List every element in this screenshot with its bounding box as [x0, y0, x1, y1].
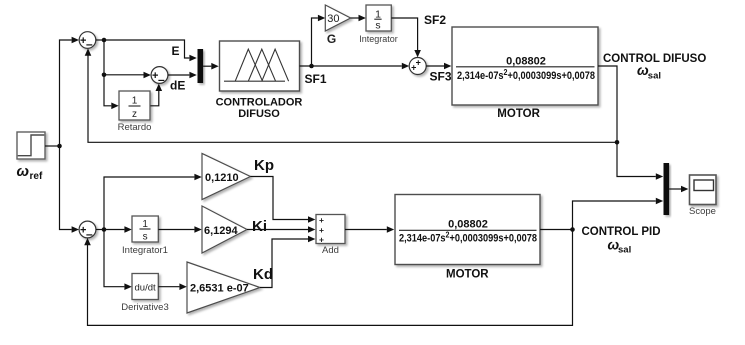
wire motor1 output to mux2 (fuzzy) — [598, 66, 663, 180]
svg-text:+: + — [319, 215, 324, 225]
step source omega_ref — [17, 132, 45, 159]
wire Retardo output up to sum dE — [151, 84, 163, 106]
wire mux2 to scope — [669, 186, 688, 193]
wire controller output SF1 to sum3 — [300, 63, 410, 70]
svg-text:s: s — [375, 20, 380, 32]
svg-text:SF1: SF1 — [305, 72, 327, 86]
wire Kp to Add — [250, 177, 315, 223]
svg-text:+: + — [411, 62, 416, 72]
block Add — [316, 215, 345, 245]
wire sum dE to mux — [168, 72, 197, 79]
svg-text:30: 30 — [327, 13, 339, 25]
gain Kp 0,1210 — [202, 153, 250, 199]
svg-text:MOTOR: MOTOR — [497, 108, 540, 120]
svg-text:sal: sal — [618, 244, 631, 255]
svg-text:2,314e-07s2+0,0003099s+0,0078: 2,314e-07s2+0,0003099s+0,0078 — [457, 67, 595, 82]
svg-text:DIFUSO: DIFUSO — [238, 108, 280, 120]
wire junction up to sum1 — [60, 37, 80, 146]
block Scope — [690, 175, 717, 205]
node D — [570, 227, 575, 232]
wire Integrator1 to Ki — [158, 226, 201, 233]
block MOTOR (fuzzy) transfer fcn — [452, 27, 598, 105]
mux Mux1 — [198, 49, 204, 83]
wire sum4 output to junction C — [96, 229, 104, 231]
svg-text:–: – — [158, 72, 165, 86]
node A — [102, 38, 107, 43]
wire E branch to mux — [104, 40, 197, 61]
label omega_ref — [17, 163, 43, 182]
wire integrator SF2 down to sum3 — [391, 18, 421, 57]
svg-text:CONTROL PID: CONTROL PID — [582, 226, 661, 238]
svg-text:z: z — [132, 109, 137, 120]
gain G value 30 — [325, 5, 350, 31]
sum dE — [151, 67, 168, 87]
wire PID feedback to sum4 — [84, 230, 572, 326]
svg-text:Retardo: Retardo — [118, 122, 152, 133]
label CONTROL DIFUSO — [603, 53, 706, 82]
svg-text:0,08802: 0,08802 — [448, 219, 488, 231]
svg-text:ref: ref — [30, 171, 43, 182]
svg-text:6,1294: 6,1294 — [204, 225, 239, 237]
wire Add to motor2 — [345, 226, 394, 233]
sum Sum4 (PID error) — [79, 221, 96, 241]
svg-text:E: E — [172, 44, 180, 58]
mux Mux2 — [664, 163, 670, 215]
wire SF1 up to gain G — [312, 15, 326, 66]
node SF1 junction — [309, 64, 314, 69]
wire G to integrator — [351, 15, 366, 22]
svg-text:sal: sal — [648, 71, 661, 82]
wire Kd to Add — [260, 236, 315, 288]
wire Ki to Add — [247, 226, 315, 233]
wire D up to mux2 (PID) — [573, 198, 664, 230]
node C — [102, 227, 107, 232]
wire junction down to sum4 (PID) — [60, 146, 80, 233]
svg-text:Kd: Kd — [253, 266, 273, 283]
svg-text:1: 1 — [142, 219, 148, 230]
svg-text:s: s — [143, 232, 148, 243]
svg-text:+: + — [319, 225, 324, 235]
svg-text:Integrator: Integrator — [359, 34, 398, 44]
svg-text:2,314e-07s2+0,0003099s+0,0078: 2,314e-07s2+0,0003099s+0,0078 — [399, 230, 537, 245]
svg-text:Integrator1: Integrator1 — [122, 245, 168, 256]
svg-text:1: 1 — [375, 8, 381, 20]
wire step output to junction — [45, 145, 60, 147]
label CONTROLADOR DIFUSO — [216, 97, 303, 120]
svg-text:SF3: SF3 — [430, 70, 452, 84]
svg-text:Scope: Scope — [689, 206, 716, 217]
wire motor2 output junction D — [540, 229, 573, 231]
svg-text:–: – — [86, 227, 93, 241]
svg-text:Add: Add — [322, 245, 339, 256]
label CONTROL PID — [582, 226, 661, 256]
svg-text:ω: ω — [17, 163, 30, 180]
svg-text:dE: dE — [170, 79, 185, 93]
wire B to sum dE — [104, 72, 151, 79]
node fuzzy feedback junction — [615, 140, 620, 145]
svg-text:Ki: Ki — [252, 218, 267, 235]
svg-text:–: – — [86, 37, 93, 51]
wire A down to junction B — [103, 40, 105, 75]
svg-text:+: + — [319, 235, 324, 245]
wire fuzzy feedback to sum1 — [85, 48, 617, 142]
sum Sum1 (fuzzy error) — [79, 32, 96, 52]
gain Ki 6,1294 — [202, 206, 247, 253]
svg-text:0,1210: 0,1210 — [205, 172, 239, 184]
node step-output junction — [57, 144, 62, 149]
svg-text:MOTOR: MOTOR — [446, 268, 489, 280]
block Integrator1 1/s — [132, 216, 158, 243]
wire C to Integrator1 — [104, 226, 132, 233]
svg-text:Kp: Kp — [254, 157, 274, 174]
svg-text:du/dt: du/dt — [135, 282, 156, 293]
svg-text:0,08802: 0,08802 — [506, 56, 546, 68]
wire B down to Retardo — [104, 75, 119, 109]
node B — [102, 73, 107, 78]
wire C down to Derivative3 — [104, 230, 132, 291]
svg-text:CONTROL DIFUSO: CONTROL DIFUSO — [603, 53, 706, 65]
block MOTOR (PID) transfer fcn — [395, 195, 540, 265]
block Retardo 1/z — [119, 91, 150, 120]
svg-text:2,6531 e-07: 2,6531 e-07 — [190, 283, 249, 295]
svg-text:SF2: SF2 — [424, 13, 446, 27]
block Integrator 1/s — [366, 5, 391, 32]
block Derivative3 du/dt — [132, 274, 158, 300]
gain Kd 2,6531e-07 — [187, 262, 260, 313]
wire Derivative3 to Kd — [158, 283, 186, 290]
sum Sum3 (SF1+SF2) — [409, 58, 426, 75]
svg-text:+: + — [416, 58, 421, 68]
svg-text:CONTROLADOR: CONTROLADOR — [216, 97, 303, 109]
block fuzzy controller — [220, 41, 300, 91]
wire sum3 to motor1 — [426, 63, 451, 70]
wire sum1 output to junction A — [96, 39, 104, 41]
svg-text:Derivative3: Derivative3 — [121, 302, 169, 313]
wire C up to Kp gain — [104, 174, 202, 230]
svg-text:G: G — [327, 32, 336, 46]
svg-text:1: 1 — [132, 96, 138, 107]
wire mux1 to controller — [203, 63, 219, 70]
